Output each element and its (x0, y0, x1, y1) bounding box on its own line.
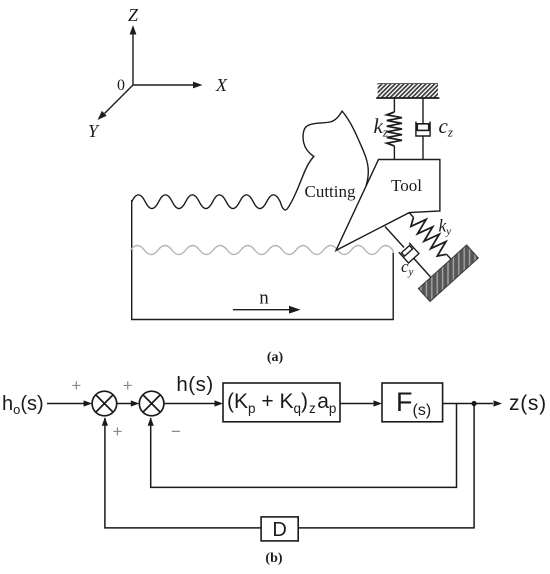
svg-text:X: X (215, 75, 228, 95)
svg-text:h(s): h(s) (176, 373, 213, 396)
svg-text:(Kp + Kq)zap: (Kp + Kq)zap (227, 390, 336, 416)
svg-text:+: + (71, 376, 81, 395)
svg-text:Tool: Tool (391, 176, 422, 195)
svg-text:(b): (b) (265, 551, 282, 566)
svg-text:ho(s): ho(s) (2, 393, 44, 417)
svg-text:−: − (171, 422, 181, 441)
svg-text:Z: Z (128, 5, 139, 25)
svg-text:(a): (a) (267, 350, 284, 365)
svg-text:z(s): z(s) (509, 392, 547, 415)
svg-text:Cutting: Cutting (304, 182, 356, 201)
svg-text:0: 0 (117, 77, 125, 94)
svg-text:D: D (272, 519, 286, 541)
svg-text:n: n (259, 288, 269, 309)
svg-text:+: + (113, 422, 123, 441)
svg-text:+: + (123, 376, 133, 395)
